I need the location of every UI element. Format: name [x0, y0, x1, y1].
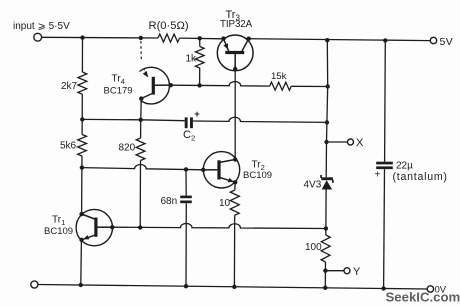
junction 5k6 / Tr1 collector / Tr2 base line	[80, 165, 84, 169]
junction bottom rail / 100	[323, 286, 327, 290]
wire Tr4 emitter slant	[144, 69, 148, 77]
svg-text:(tantalum): (tantalum)	[393, 171, 448, 183]
wire 100 bottom	[324, 262, 326, 271]
Tr4 emitter arrow	[143, 71, 148, 77]
junction top rail / 22u branch	[383, 38, 387, 42]
wire Y branch	[325, 270, 344, 272]
svg-text:TIP32A: TIP32A	[220, 19, 253, 30]
Tr2 emitter arrow	[228, 178, 234, 182]
capacitor 22u tantalum	[376, 162, 393, 165]
svg-text:2k7: 2k7	[61, 81, 78, 92]
svg-text:4V3: 4V3	[304, 180, 322, 191]
dot Tr4 base at arc	[169, 83, 173, 87]
wire 1k bottom	[199, 68, 201, 85]
resistor 820	[136, 138, 145, 161]
dot Tr1 base edge	[110, 225, 114, 229]
wire 820 bottom to bus	[139, 161, 141, 228]
svg-text:820: 820	[119, 143, 136, 154]
wire Tr1 emitter down	[80, 240, 83, 285]
transistor Tr4 BC179	[140, 67, 171, 104]
junction bottom rail / 68n	[184, 284, 188, 288]
transistor Tr3 TIP32A	[217, 35, 253, 71]
junction top rail / Tr4 emitter	[139, 36, 143, 40]
zener diode 4V3	[320, 175, 334, 190]
wire top rail: Tr3 collector to 5V terminal	[249, 39, 431, 41]
junction 15k / zener branch	[326, 84, 330, 88]
junction node A (2k7/5k6/C2 bus)	[80, 117, 84, 121]
junction C2 wire / zener branch	[325, 120, 329, 124]
resistor 1k	[195, 47, 204, 69]
svg-text:68n: 68n	[161, 196, 178, 207]
svg-text:X: X	[356, 137, 364, 149]
svg-text:+: +	[375, 170, 381, 181]
wire to bottom rail	[324, 271, 326, 288]
wire to zener cathode	[325, 142, 327, 177]
wire 820 top	[140, 120, 142, 138]
dot Tr3 collector edge	[247, 37, 251, 41]
wire X branch	[327, 141, 348, 143]
Tr1 emitter arrow	[83, 235, 89, 239]
wire 5V rail to 15k junction	[326, 40, 328, 86]
dot Tr2 base edge	[201, 168, 205, 172]
svg-text:5k6: 5k6	[60, 141, 77, 152]
wire 68n bottom to rail	[185, 203, 187, 286]
wire to C2 left plate	[141, 119, 185, 122]
junction bottom rail / 22u	[381, 286, 385, 290]
junction Tr4 collector / 820 / C2	[139, 118, 143, 122]
terminal Y	[344, 268, 350, 274]
junction bottom rail / 10	[232, 285, 236, 289]
wire 5k6 bottom	[81, 156, 83, 168]
terminal input return (-)	[31, 281, 38, 288]
svg-text:1k: 1k	[186, 54, 198, 65]
wire bottom rail 0V	[38, 285, 427, 290]
dot Tr3 base edge	[233, 67, 237, 71]
svg-text:15k: 15k	[271, 71, 287, 82]
wire C2 to zener branch, hop over Tr2 collector line	[193, 117, 327, 122]
wire Tr1 base bus to zener anode, hops over 68n and 10 lines	[112, 223, 326, 228]
wire Tr3 base to Tr2 collector	[234, 69, 236, 159]
dot Tr2 emitter edge	[233, 180, 237, 184]
wire 100 top	[325, 229, 327, 236]
wire top rail: R to Tr3 emitter	[180, 37, 224, 40]
svg-text:100: 100	[305, 242, 322, 253]
junction top rail / 1k	[198, 36, 202, 40]
svg-text:Y: Y	[353, 266, 361, 278]
wire 10 bottom to rail	[233, 215, 235, 286]
wire node A to Tr4 collector junction	[82, 118, 140, 120]
wire Tr1 collector node to Tr2 base, hop over 820	[82, 164, 203, 169]
wire zener anode to bus	[325, 190, 327, 229]
wire 2k7 bottom to node A	[81, 94, 83, 119]
junction Y branch	[323, 269, 327, 273]
svg-text:BC109: BC109	[44, 226, 73, 237]
capacitor 68n	[180, 196, 192, 199]
terminal X	[348, 139, 354, 145]
junction 1k bottom	[197, 83, 201, 87]
wire to X branch	[326, 122, 328, 142]
junction 820 bottom / bus	[138, 225, 142, 229]
junction X branch	[324, 140, 328, 144]
wire Tr4 collector to node	[140, 99, 142, 120]
resistor R(0.5 ohm)	[158, 34, 180, 42]
junction top rail / zener branch	[325, 38, 329, 42]
junction 68n top	[184, 167, 188, 171]
terminal 5V output	[430, 37, 436, 43]
svg-text:input ⩾ 5·5V: input ⩾ 5·5V	[13, 21, 70, 32]
wire 1k top	[199, 38, 201, 46]
svg-text:R(0·5Ω): R(0·5Ω)	[149, 20, 189, 32]
svg-text:BC109: BC109	[243, 170, 272, 181]
resistor 10	[230, 190, 239, 215]
resistor 2k7	[78, 72, 87, 94]
svg-text:BC179: BC179	[104, 86, 133, 97]
svg-text:SeekIC.com: SeekIC.com	[386, 290, 460, 305]
wire 2k7 top	[81, 38, 83, 72]
wire top rail: input terminal to R	[42, 36, 158, 39]
Tr3 emitter arrow	[223, 43, 228, 50]
svg-text:5V: 5V	[440, 36, 454, 48]
dot Tr4 collector	[139, 96, 143, 100]
junction bus / zener anode	[324, 226, 328, 230]
wire Tr4 emitter (faint dashed)	[140, 41, 142, 60]
wire 15k junction to C2 junction	[326, 87, 329, 123]
junction bottom rail / Tr1 emitter	[79, 283, 83, 287]
capacitor C2 electrolytic	[185, 117, 188, 128]
wire Tr1 collector up	[81, 168, 83, 214]
junction top rail / 2k7	[80, 35, 84, 39]
transistor Tr2 BC109	[203, 152, 240, 188]
svg-text:22µ: 22µ	[396, 161, 413, 172]
terminal 0V	[427, 286, 433, 292]
wire 15k to zener branch	[291, 85, 327, 87]
resistor 5k6	[78, 135, 87, 157]
svg-text:+: +	[194, 109, 200, 120]
wire 68n top	[185, 169, 187, 195]
dot Tr3 emitter edge	[221, 36, 225, 40]
dot Tr1 collector edge	[79, 212, 83, 216]
wire Tr2 emitter to 10	[234, 182, 236, 190]
svg-text:10: 10	[219, 198, 231, 209]
wire 5V rail to 22u top	[384, 41, 387, 162]
dot Tr2 collector edge	[233, 157, 237, 161]
transistor Tr1 BC109	[76, 209, 112, 245]
resistor 15k	[270, 82, 292, 90]
wire 5k6 top	[81, 119, 83, 134]
wire Tr4 base to 15k, hop over Tr3 base line	[171, 82, 270, 87]
dot Tr1 emitter edge	[79, 238, 83, 242]
wire 22u bottom to rail	[383, 169, 386, 288]
resistor 100	[321, 235, 330, 262]
terminal input (+)	[34, 33, 42, 41]
